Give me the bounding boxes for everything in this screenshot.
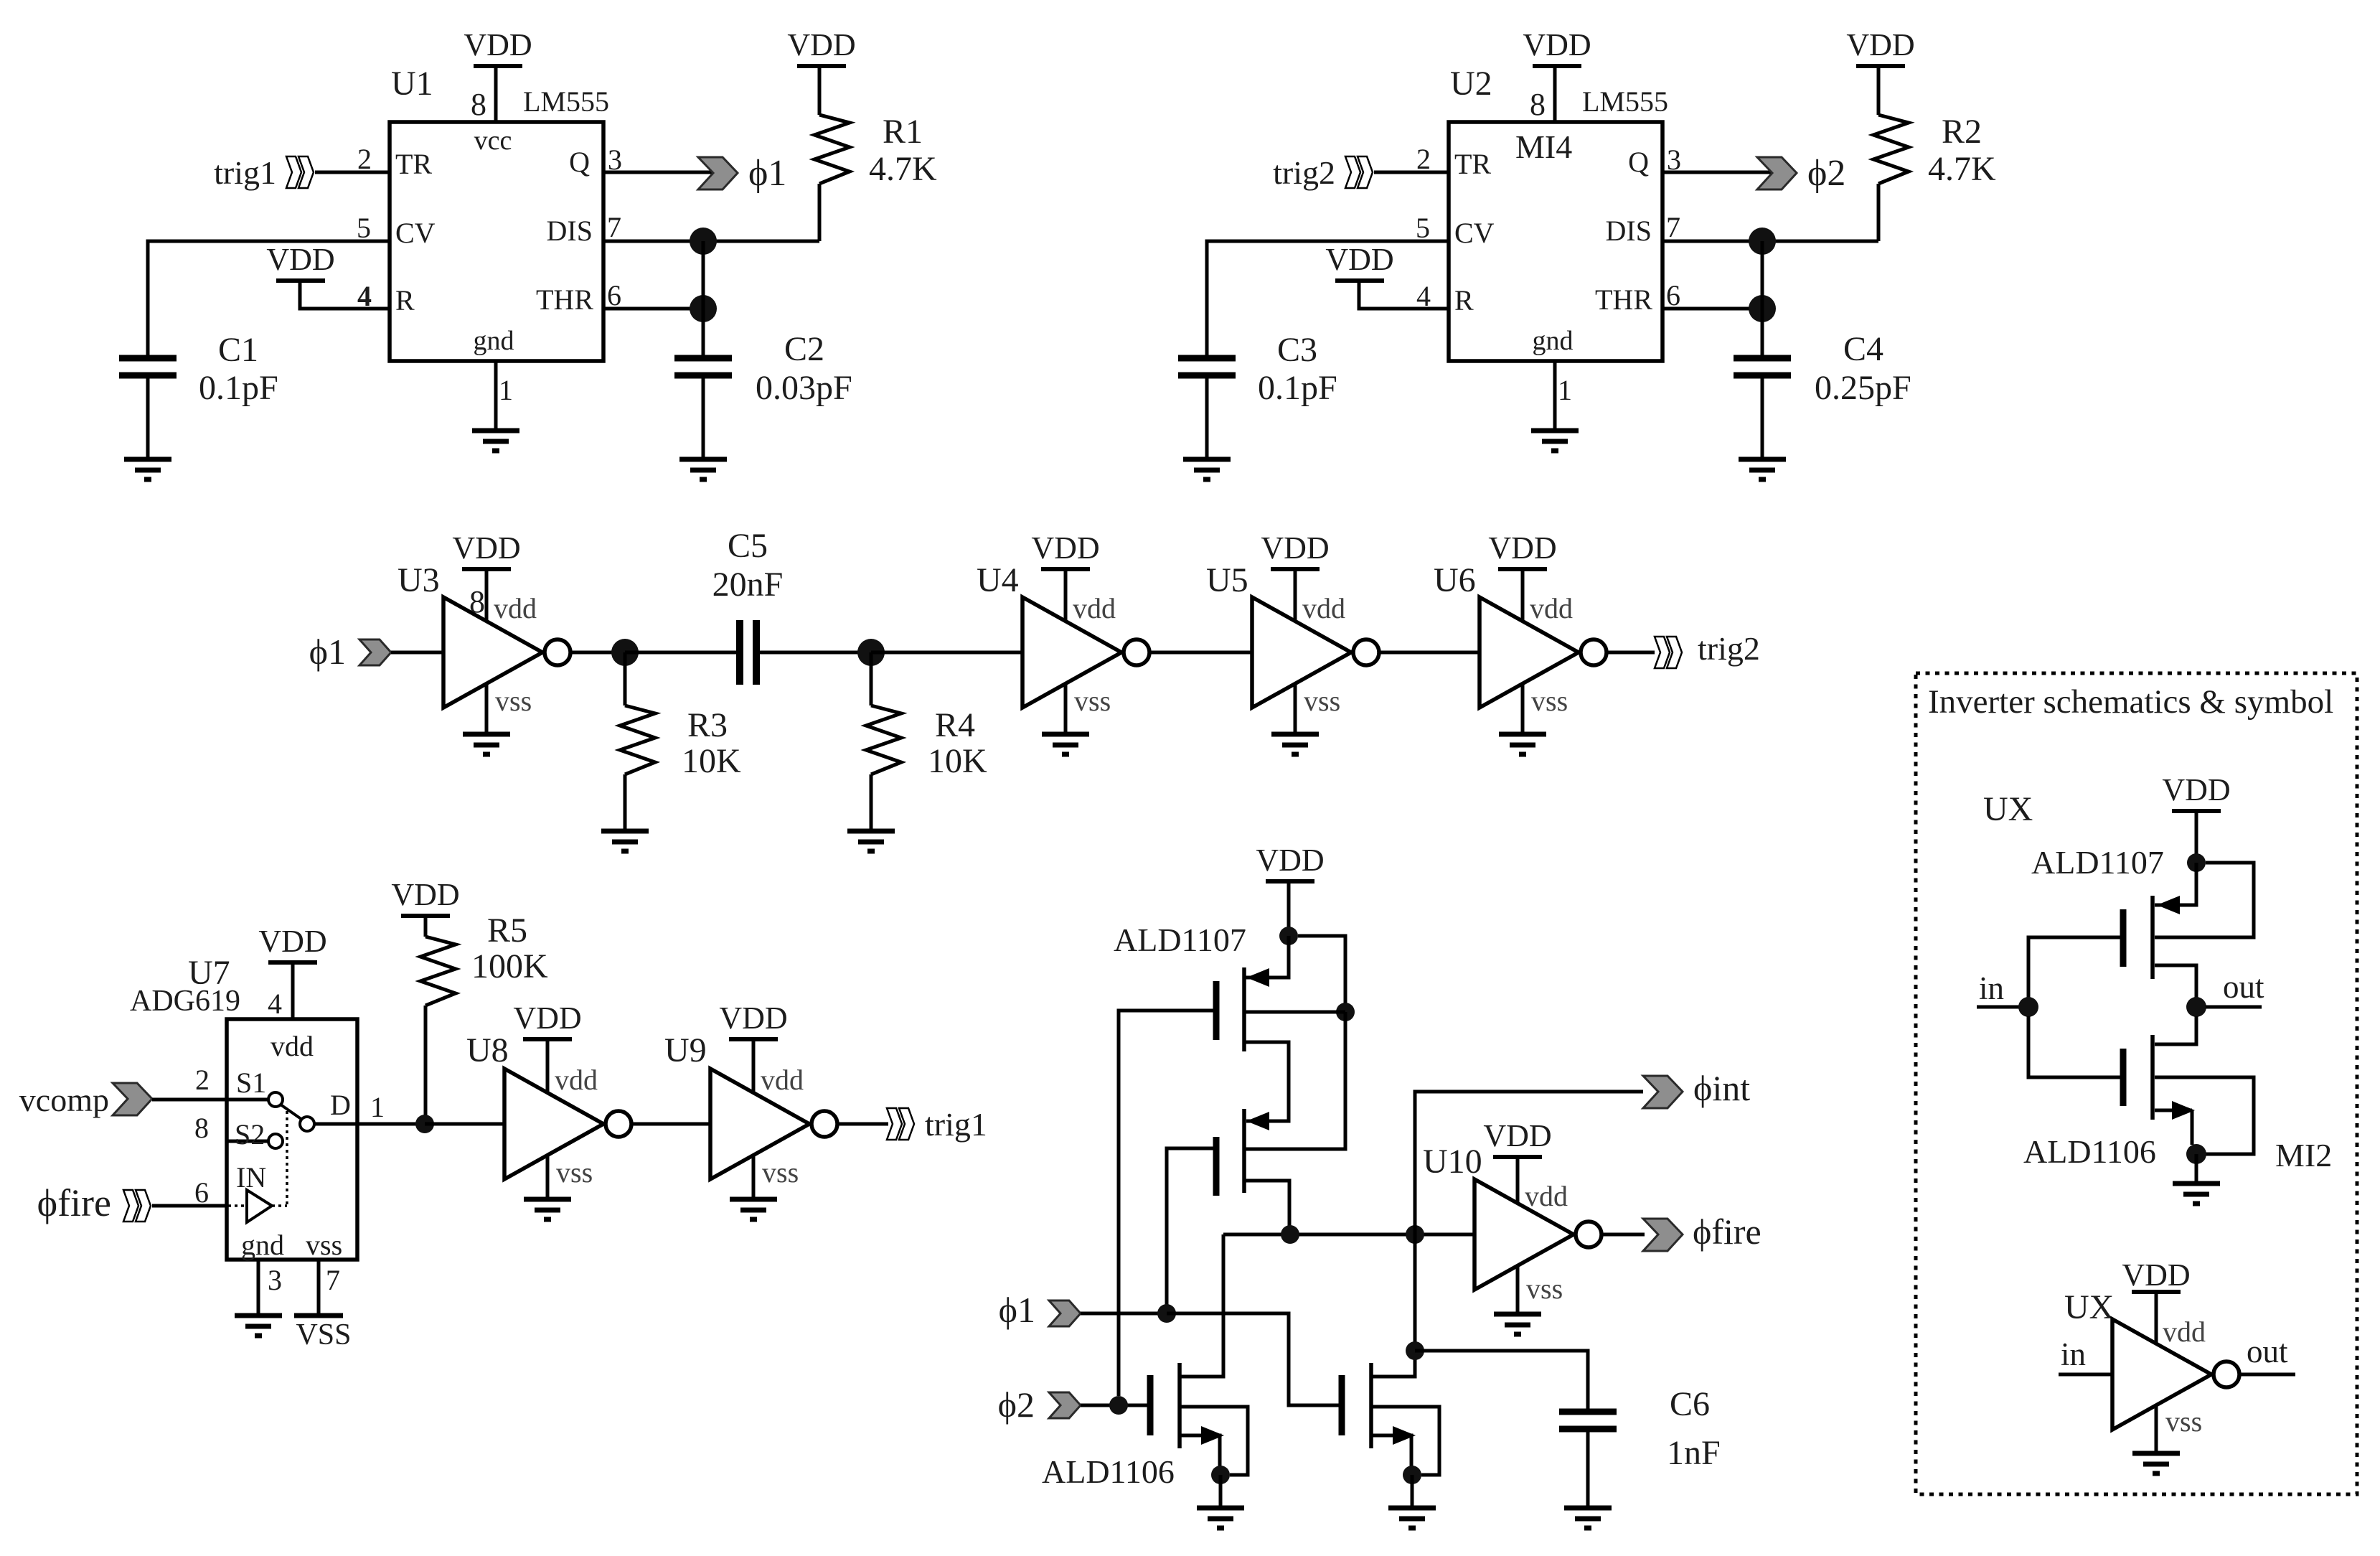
- svg-text:R1: R1: [883, 113, 923, 151]
- wire U6 vss stem: [1521, 683, 1525, 734]
- svg-text:vcomp: vcomp: [19, 1082, 109, 1118]
- svg-text:VDD: VDD: [391, 877, 459, 912]
- wire pin6 THR: [1662, 307, 1762, 311]
- wire U5 vss stem: [1294, 683, 1297, 734]
- svg-text:ALD1107: ALD1107: [2031, 844, 2164, 881]
- wire U10 out to ϕfire: [1601, 1233, 1645, 1237]
- svg-text:R4: R4: [935, 706, 975, 744]
- ground (U3 vss): [463, 734, 510, 754]
- svg-text:8: 8: [471, 87, 486, 122]
- svg-text:VDD: VDD: [2122, 1257, 2190, 1293]
- svg-text:vss: vss: [762, 1156, 799, 1189]
- wire M6 gate: [2028, 1016, 2123, 1077]
- svg-text:VDD: VDD: [1846, 27, 1914, 62]
- wire output rail: [1223, 1233, 1474, 1237]
- junction node bulk rail: [1336, 1003, 1355, 1021]
- svg-text:vss: vss: [1531, 685, 1568, 717]
- wire in: [1977, 1006, 2019, 1009]
- svg-text:trig2: trig2: [1698, 630, 1760, 667]
- wire THR to C4: [1761, 309, 1764, 357]
- svg-text:8: 8: [194, 1112, 209, 1144]
- wire U4 vdd stem: [1064, 569, 1068, 622]
- wire node to C6: [1415, 1351, 1588, 1410]
- wire ϕint riser: [1415, 1092, 1643, 1234]
- wire M6 bulk loop: [2155, 1077, 2254, 1154]
- wire node to U8: [425, 1123, 504, 1126]
- svg-text:R3: R3: [687, 706, 728, 744]
- wire U10 vss stem: [1516, 1265, 1520, 1314]
- junction node M4 drain/C6: [1406, 1341, 1424, 1360]
- wire pin7 DIS to R2: [1662, 240, 1878, 243]
- svg-text:ϕ1: ϕ1: [309, 632, 346, 672]
- svg-text:vdd: vdd: [1530, 592, 1573, 624]
- port chevron ϕfire (U7): [123, 1190, 151, 1222]
- ground (U5 vss): [1271, 734, 1319, 754]
- switch contact S2 (U7): [268, 1134, 283, 1148]
- ground (U9 vss): [730, 1199, 777, 1219]
- svg-text:U6: U6: [1434, 561, 1476, 599]
- wire U5 to U6: [1379, 651, 1480, 655]
- svg-text:R5: R5: [487, 911, 527, 950]
- svg-text:vss: vss: [556, 1156, 593, 1189]
- wire VDD to M5: [2195, 811, 2198, 863]
- svg-text:MI4: MI4: [1515, 128, 1572, 165]
- svg-text:C4: C4: [1843, 330, 1883, 368]
- wire ϕfire to pin6 IN: [152, 1204, 227, 1208]
- svg-text:VDD: VDD: [1488, 530, 1556, 566]
- svg-text:vdd: vdd: [2163, 1316, 2206, 1348]
- svg-text:6: 6: [607, 279, 621, 311]
- svg-text:U10: U10: [1423, 1143, 1482, 1181]
- svg-text:vcc: vcc: [474, 126, 512, 156]
- svg-text:trig1: trig1: [925, 1106, 987, 1143]
- junction node M6 source/bulk: [2186, 1144, 2206, 1164]
- ground (C6): [1564, 1508, 1612, 1528]
- wire M3 source loop: [1180, 1407, 1248, 1475]
- IC U2 LM555 box: [1449, 122, 1662, 361]
- transistor M1 PMOS body: [1216, 967, 1244, 1051]
- ground (U7 pin3): [235, 1316, 282, 1336]
- svg-text:4.7K: 4.7K: [869, 150, 937, 188]
- svg-text:VDD: VDD: [266, 242, 334, 277]
- transistor M3 NMOS body: [1150, 1363, 1180, 1448]
- ground (C2): [679, 459, 727, 479]
- power VSS bar (U7 pin7): [294, 1313, 343, 1318]
- wire out (UX): [2239, 1373, 2295, 1377]
- inverter U9: [710, 1069, 837, 1179]
- wire C1 to ground: [146, 378, 150, 459]
- transistor M6 source arrow: [2172, 1101, 2195, 1120]
- svg-text:CV: CV: [395, 217, 436, 249]
- junction node out: [2186, 997, 2206, 1017]
- svg-text:4: 4: [268, 988, 282, 1020]
- wire M5 bulk loop: [2155, 863, 2254, 937]
- wire M3 drain riser: [1180, 1234, 1223, 1377]
- ground (C4): [1739, 459, 1786, 479]
- wire VDD to R1: [818, 68, 822, 115]
- port chevron ϕ2 (rail): [1049, 1392, 1081, 1418]
- wire U6 vdd stem: [1521, 569, 1525, 622]
- svg-text:out: out: [2247, 1334, 2288, 1369]
- port chevron ϕ1 (U3 input): [359, 639, 391, 665]
- ground (R4): [847, 831, 895, 851]
- wire junction to C5: [625, 651, 736, 655]
- svg-text:1: 1: [370, 1091, 385, 1123]
- wire VDD to R5: [424, 916, 428, 937]
- svg-text:C3: C3: [1277, 331, 1317, 369]
- svg-text:ϕ1: ϕ1: [748, 153, 786, 194]
- junction node VDD/M5: [2187, 853, 2206, 872]
- svg-text:gnd: gnd: [241, 1229, 284, 1261]
- ground (C1): [124, 459, 171, 479]
- junction node ϕ2/M1 gate: [1109, 1396, 1128, 1415]
- junction node U3 out: [611, 639, 639, 666]
- svg-text:ALD1107: ALD1107: [1114, 922, 1246, 958]
- wire M1 bulk: [1298, 936, 1345, 1012]
- svg-text:vss: vss: [1526, 1273, 1563, 1305]
- port chevron trig2: [1345, 156, 1373, 188]
- wire R2 to DIS: [1877, 184, 1881, 241]
- wire VDD to M1: [1287, 881, 1291, 936]
- svg-text:Q: Q: [1628, 146, 1649, 178]
- wire THR to C2: [702, 309, 705, 357]
- wire ϕ1 rail to M4 gate: [1167, 1313, 1339, 1405]
- svg-text:UX: UX: [2064, 1288, 2114, 1326]
- svg-text:ALD1106: ALD1106: [2023, 1133, 2156, 1170]
- ground (M3): [1197, 1508, 1244, 1528]
- capacitor C1: [119, 358, 177, 375]
- wire pin1 gnd (U1): [494, 361, 498, 431]
- resistor R2: [1873, 115, 1909, 184]
- wire C5 to junction: [760, 651, 871, 655]
- wire ϕ1 rail: [1081, 1312, 1167, 1316]
- wire VDD to R2: [1877, 68, 1881, 115]
- wire M5 source: [2155, 863, 2196, 905]
- ground (U4 vss): [1042, 734, 1089, 754]
- power VDD (R2): [1846, 27, 1914, 66]
- wire U4 vss stem: [1064, 683, 1068, 734]
- svg-text:ϕ1: ϕ1: [999, 1290, 1035, 1330]
- power VDD (U1 pin8): [464, 27, 532, 66]
- wire U3 out: [570, 651, 625, 655]
- inverter U5: [1252, 597, 1379, 708]
- wire DIS-THR junction (U2): [1761, 241, 1764, 309]
- svg-text:vdd: vdd: [555, 1064, 598, 1096]
- wire R1 to DIS: [818, 184, 822, 241]
- svg-text:U3: U3: [398, 561, 440, 599]
- wire VDD to pin4 R: [300, 281, 390, 309]
- svg-text:UX: UX: [1983, 790, 2033, 828]
- svg-text:VDD: VDD: [513, 1000, 581, 1036]
- ground (C3): [1183, 459, 1231, 479]
- svg-text:S1: S1: [236, 1067, 266, 1099]
- svg-text:U9: U9: [664, 1031, 707, 1069]
- svg-text:ϕ2: ϕ2: [998, 1384, 1035, 1425]
- junction node U10 in: [1406, 1225, 1424, 1244]
- wire pin8 S2 stub: [227, 1140, 268, 1143]
- svg-text:0.1pF: 0.1pF: [199, 369, 278, 407]
- junction node M2 drain: [1281, 1225, 1299, 1244]
- switch lever (U7): [281, 1105, 302, 1120]
- svg-text:THR: THR: [1595, 283, 1652, 316]
- svg-text:8: 8: [1530, 87, 1546, 122]
- svg-text:ϕfire: ϕfire: [37, 1181, 111, 1224]
- transistor M6 NMOS body: [2123, 1035, 2153, 1120]
- svg-text:vss: vss: [306, 1229, 342, 1261]
- svg-text:vss: vss: [1074, 685, 1111, 717]
- wire D pin1 out: [314, 1123, 425, 1126]
- power VDD (U3): [452, 530, 520, 569]
- dashed control line (U7): [228, 1111, 287, 1206]
- wire U8 vdd stem: [546, 1039, 550, 1093]
- svg-text:gnd: gnd: [474, 326, 514, 356]
- power VDD (U4): [1031, 530, 1099, 569]
- wire R5 to node: [424, 1006, 428, 1124]
- wire pin3 Q to &#x3d5;1: [603, 171, 716, 174]
- dotted frame (inverter schematics & symbol): [1916, 673, 2357, 1494]
- power VDD (U9): [719, 1000, 787, 1039]
- transistor M5 source arrow: [2157, 896, 2180, 914]
- svg-text:DIS: DIS: [547, 215, 593, 247]
- svg-text:VDD: VDD: [1256, 843, 1324, 878]
- wire R3 to ground: [624, 774, 627, 831]
- svg-text:D: D: [330, 1089, 351, 1121]
- svg-text:U5: U5: [1206, 561, 1248, 599]
- junction node THR (U1): [690, 295, 717, 322]
- wire U7 pin3 gnd: [257, 1260, 260, 1316]
- resistor R4: [866, 706, 901, 774]
- wire trig2 to pin2: [1374, 171, 1449, 174]
- port chevron ϕfire (out): [1643, 1219, 1683, 1251]
- wire U5 vdd stem: [1294, 569, 1297, 622]
- svg-text:3: 3: [1667, 144, 1681, 176]
- wire U3 vss stem: [485, 683, 489, 734]
- svg-text:TR: TR: [1454, 148, 1491, 180]
- svg-text:3: 3: [268, 1264, 282, 1296]
- wire bulk rail to M2: [1244, 1012, 1345, 1149]
- ground (UX vss): [2132, 1453, 2180, 1473]
- svg-text:VDD: VDD: [464, 27, 532, 62]
- power VDD (M5): [2162, 772, 2230, 811]
- wire M4 source loop: [1371, 1407, 1439, 1475]
- svg-text:Inverter schematics & symbol: Inverter schematics & symbol: [1928, 683, 2333, 721]
- capacitor C4: [1734, 358, 1791, 375]
- inverter U4: [1022, 597, 1149, 708]
- svg-text:0.03pF: 0.03pF: [756, 369, 852, 407]
- svg-text:Q: Q: [569, 146, 590, 178]
- svg-text:VDD: VDD: [1483, 1118, 1551, 1153]
- svg-text:4: 4: [357, 280, 372, 312]
- svg-text:IN: IN: [236, 1161, 266, 1194]
- wire pin5 CV to C1: [148, 241, 390, 357]
- svg-text:VDD: VDD: [258, 924, 326, 959]
- power VDD (U6): [1488, 530, 1556, 569]
- svg-text:TR: TR: [395, 148, 432, 180]
- power VDD (U8): [513, 1000, 581, 1039]
- port chevron trig1: [286, 156, 314, 188]
- svg-text:vdd: vdd: [761, 1064, 804, 1096]
- svg-text:out: out: [2223, 969, 2264, 1005]
- svg-text:vss: vss: [1304, 685, 1340, 717]
- ground (U1 pin1): [472, 431, 519, 451]
- junction node M4 source/bulk: [1403, 1466, 1421, 1484]
- svg-text:MI2: MI2: [2275, 1137, 2332, 1173]
- switch contact D (U7): [300, 1117, 314, 1131]
- transistor M4 bulk arrow: [1393, 1426, 1416, 1445]
- svg-text:U8: U8: [466, 1031, 509, 1069]
- svg-text:VDD: VDD: [1261, 530, 1329, 566]
- wire C2 to ground: [702, 378, 705, 459]
- svg-text:6: 6: [194, 1176, 209, 1209]
- wire U4 to U5: [1149, 651, 1252, 655]
- port chevron ϕint: [1643, 1076, 1683, 1108]
- svg-text:1nF: 1nF: [1667, 1434, 1721, 1472]
- wire UX vdd stem: [2155, 1292, 2158, 1344]
- wire U9 vss stem: [752, 1155, 756, 1199]
- port chevron vcomp: [113, 1083, 152, 1115]
- junction node DIS (U2): [1749, 228, 1776, 255]
- junction node R4: [857, 639, 885, 666]
- wire C6 to ground: [1586, 1432, 1590, 1508]
- svg-text:4: 4: [1416, 280, 1431, 312]
- wire U7 pin4 VDD: [291, 964, 295, 1019]
- wire DIS-THR junction (U1): [702, 241, 705, 309]
- wire ϕ2 to M3 gate: [1081, 1404, 1147, 1407]
- svg-text:2: 2: [357, 143, 372, 175]
- wire U9 out to trig1: [837, 1123, 888, 1126]
- buffer triangle IN (U7): [247, 1190, 272, 1222]
- svg-text:in: in: [2061, 1336, 2086, 1372]
- svg-text:vdd: vdd: [494, 592, 537, 624]
- svg-text:VDD: VDD: [1523, 27, 1591, 62]
- port chevron trig1 (out): [887, 1108, 914, 1140]
- svg-text:C2: C2: [784, 330, 824, 368]
- inverter UX: [2112, 1319, 2239, 1430]
- junction node VDD/M1: [1279, 927, 1298, 945]
- wire pin5 CV to C3: [1207, 241, 1449, 357]
- svg-text:R: R: [395, 284, 415, 317]
- wire U9 vdd stem: [752, 1039, 756, 1093]
- wire M2 gate to ϕ1 rail: [1167, 1148, 1216, 1313]
- wire U2 pin8 VDD: [1553, 68, 1557, 122]
- svg-text:10K: 10K: [682, 742, 741, 780]
- svg-text:4.7K: 4.7K: [1928, 150, 1996, 188]
- junction node THR (U2): [1749, 295, 1776, 322]
- wire junction to R4: [870, 652, 873, 706]
- junction node D/R5: [415, 1115, 434, 1133]
- svg-text:C6: C6: [1670, 1385, 1710, 1423]
- transistor M1 source arrow: [1246, 968, 1269, 987]
- wire UX vss stem: [2155, 1405, 2158, 1453]
- power VDD (U2 pin4): [1325, 242, 1393, 281]
- svg-text:5: 5: [1416, 212, 1430, 244]
- svg-text:7: 7: [326, 1264, 340, 1296]
- wire in (UX): [2059, 1373, 2112, 1377]
- power VDD (U10): [1483, 1118, 1551, 1157]
- wire M5 drain: [2155, 965, 2196, 998]
- switch contact S1 (U7): [268, 1092, 283, 1107]
- svg-text:U1: U1: [391, 65, 433, 103]
- svg-text:U2: U2: [1450, 65, 1492, 103]
- capacitor C6: [1559, 1412, 1617, 1429]
- svg-text:3: 3: [608, 144, 622, 176]
- wire U6 out to trig2: [1607, 651, 1655, 655]
- power VDD (U7 pin4): [258, 924, 326, 962]
- svg-text:vss: vss: [2165, 1405, 2202, 1438]
- capacitor C3: [1178, 358, 1236, 375]
- inverter U10: [1474, 1179, 1601, 1290]
- resistor R3: [620, 706, 655, 774]
- svg-text:C5: C5: [728, 527, 768, 565]
- power VDD (M1): [1256, 843, 1324, 881]
- svg-text:CV: CV: [1454, 217, 1495, 249]
- svg-text:vdd: vdd: [1302, 592, 1345, 624]
- wire M1 gate to ϕ2 rail: [1119, 1011, 1216, 1396]
- wire M3 to ground: [1219, 1475, 1223, 1508]
- wire M6 source down: [2191, 1110, 2194, 1145]
- wire C3 to ground: [1205, 378, 1209, 459]
- junction node ϕ1/M2 gate: [1157, 1304, 1176, 1323]
- inverter U3: [443, 597, 570, 708]
- svg-text:VDD: VDD: [1325, 242, 1393, 277]
- transistor M5 PMOS body: [2123, 896, 2153, 979]
- wire M1 bulk stub: [1244, 1011, 1345, 1014]
- svg-text:vdd: vdd: [1073, 592, 1116, 624]
- svg-text:100K: 100K: [471, 947, 548, 985]
- ground (U6 vss): [1499, 734, 1546, 754]
- ground (M4): [1388, 1508, 1436, 1528]
- svg-text:LM555: LM555: [1582, 85, 1668, 118]
- resistor R5: [420, 937, 456, 1006]
- ground (R3): [601, 831, 649, 851]
- transistor M2 PMOS body: [1216, 1109, 1244, 1196]
- svg-text:8: 8: [469, 584, 485, 619]
- svg-text:DIS: DIS: [1606, 215, 1652, 247]
- svg-text:VSS: VSS: [296, 1318, 351, 1351]
- svg-text:LM555: LM555: [523, 85, 609, 118]
- wire R4 to ground: [870, 774, 873, 831]
- wire M6 drain: [2155, 1016, 2196, 1044]
- svg-text:7: 7: [1666, 211, 1680, 243]
- junction node DIS (U1): [690, 228, 717, 255]
- transistor M4 NMOS body: [1342, 1363, 1371, 1448]
- IC U1 LM555 box: [390, 122, 603, 361]
- capacitor C5: [740, 620, 756, 685]
- inverter U6: [1480, 597, 1607, 708]
- wire M5 gate: [2028, 937, 2123, 998]
- wire M4 drain riser: [1371, 1234, 1415, 1377]
- capacitor C2: [674, 358, 732, 375]
- svg-text:ϕint: ϕint: [1693, 1068, 1750, 1108]
- svg-text:ϕ2: ϕ2: [1807, 153, 1845, 194]
- svg-text:2: 2: [1416, 143, 1431, 175]
- transistor M2 source arrow: [1246, 1112, 1269, 1130]
- svg-text:VDD: VDD: [787, 27, 855, 62]
- power VDD (U5): [1261, 530, 1329, 569]
- svg-text:trig2: trig2: [1273, 154, 1335, 191]
- wire M6 source: [2155, 1109, 2192, 1112]
- wire pin7 DIS to R1: [603, 240, 819, 243]
- svg-text:R2: R2: [1942, 113, 1982, 151]
- svg-text:1: 1: [499, 374, 513, 406]
- wire VDD to pin4 R: [1359, 281, 1449, 309]
- wire trig1 to pin2: [315, 171, 390, 174]
- wire U8 to U9: [631, 1123, 710, 1126]
- wire junction to U4: [871, 651, 1022, 655]
- port chevron &#x3d5;2: [1757, 157, 1797, 189]
- svg-text:ADG619: ADG619: [130, 985, 240, 1018]
- wire ϕ1 to U3: [391, 651, 443, 655]
